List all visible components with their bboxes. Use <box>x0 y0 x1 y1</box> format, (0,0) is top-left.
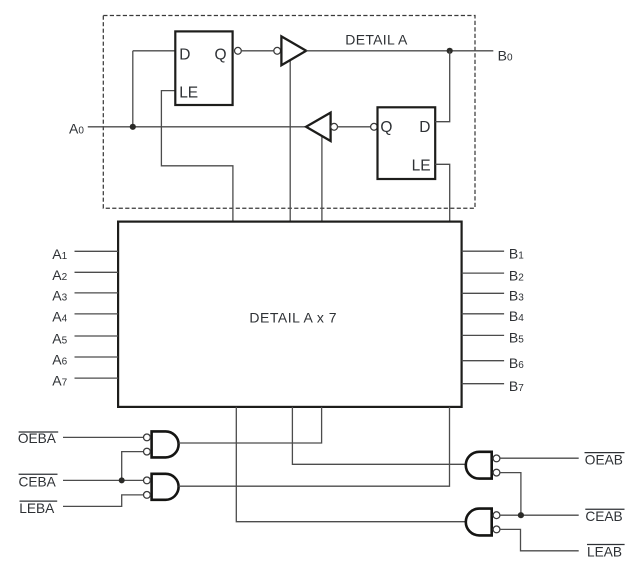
bubble U1 Q output <box>235 47 242 54</box>
bubble U4 Q output <box>371 123 378 130</box>
wire B2 <box>462 272 505 274</box>
wire U3 to U4 Q <box>338 126 371 128</box>
gate G1 (OEBA.CEBA) <box>152 431 179 457</box>
svg-text:Q: Q <box>215 46 227 63</box>
wire A4 <box>75 313 119 315</box>
wire G1 output to box <box>179 407 322 443</box>
svg-text:A2: A2 <box>52 267 67 283</box>
bubble buffer U2 input <box>274 47 281 54</box>
wire B6 <box>462 360 505 362</box>
svg-text:CEAB: CEAB <box>585 509 622 524</box>
svg-text:B7: B7 <box>509 378 524 394</box>
wire B4 <box>462 313 505 315</box>
bubble G2 input 2 <box>144 492 151 499</box>
wire A7 <box>75 377 119 379</box>
wire B3 <box>462 292 505 294</box>
pin OEBA <box>18 431 58 446</box>
wire U2 enable vertical <box>289 60 291 222</box>
wire A0 node to D input vertical <box>132 51 134 127</box>
wire CEBA branch to G1 <box>122 452 144 481</box>
pin CEAB <box>585 509 624 524</box>
svg-text:Q: Q <box>380 119 392 136</box>
node junction on CEBA <box>119 477 125 483</box>
latch U1 <box>175 31 232 105</box>
svg-text:A4: A4 <box>52 308 67 324</box>
svg-text:A0: A0 <box>69 121 84 137</box>
svg-text:A3: A3 <box>52 287 67 303</box>
wire A2 <box>75 271 119 273</box>
svg-text:B0: B0 <box>498 47 513 63</box>
wire B1 <box>462 250 505 252</box>
svg-text:LEBA: LEBA <box>19 501 55 516</box>
wire OEAB input <box>500 457 579 459</box>
wire A6 <box>75 356 119 358</box>
bubble G2 input 1 <box>144 477 151 484</box>
svg-text:OEBA: OEBA <box>18 431 57 446</box>
pin OEAB <box>585 453 625 468</box>
svg-text:A6: A6 <box>52 352 67 368</box>
svg-text:DETAIL A: DETAIL A <box>345 32 408 48</box>
svg-text:A5: A5 <box>52 331 67 347</box>
wire CEBA input <box>63 479 144 481</box>
bubble G4 input 2 <box>493 526 500 533</box>
wire A3 <box>75 292 119 294</box>
wire G2 output to box <box>179 407 450 486</box>
wire U1 LE left segment <box>161 91 233 222</box>
detail A dashed enclosure <box>103 16 475 209</box>
svg-text:B2: B2 <box>509 267 524 283</box>
gate G3 (OEAB.CEAB) <box>466 452 492 479</box>
wire CEAB input <box>500 514 579 516</box>
buffer U2 <box>281 36 306 65</box>
svg-text:D: D <box>179 46 190 63</box>
svg-text:LE: LE <box>412 157 431 174</box>
wire B0 line <box>306 50 493 52</box>
svg-text:B4: B4 <box>509 308 524 324</box>
wire U4 D to B0 node <box>435 51 450 122</box>
wire G4 output to box <box>236 407 465 522</box>
svg-text:LE: LE <box>179 85 198 102</box>
wire D input <box>133 50 176 52</box>
node junction on CEAB <box>518 512 524 518</box>
box DETAIL A x 7 <box>118 222 462 407</box>
wire G3 output to box <box>292 407 465 464</box>
svg-text:B5: B5 <box>509 330 524 346</box>
wire U1 Q to buffer <box>241 50 273 52</box>
wire LEBA input <box>63 495 144 507</box>
bubble U3 input <box>331 123 338 130</box>
node junction on A0 <box>130 124 136 130</box>
svg-text:OEAB: OEAB <box>585 453 623 468</box>
svg-text:A7: A7 <box>52 373 67 389</box>
svg-text:LEAB: LEAB <box>587 544 622 559</box>
bubble G3 input 2 <box>493 469 500 476</box>
pin LEBA <box>19 501 57 516</box>
bubble G1 input 2 <box>144 448 151 455</box>
inverter buffer U3 (left pointing) <box>306 113 331 141</box>
svg-text:D: D <box>419 119 430 136</box>
wire U4 LE control <box>435 164 450 221</box>
wire LEAB input <box>500 529 579 550</box>
svg-text:CEBA: CEBA <box>19 474 57 489</box>
wire A1 <box>75 250 119 252</box>
gate G4 (CEAB.LEAB) <box>466 509 492 536</box>
wire G3 input 2 branch <box>500 473 521 516</box>
gate G2 (CEBA.LEBA) <box>152 474 179 500</box>
wire B7 <box>462 383 505 385</box>
bubble G1 input 1 <box>144 434 151 441</box>
wire A0 horizontal <box>88 126 306 128</box>
svg-text:DETAIL A x 7: DETAIL A x 7 <box>249 309 337 325</box>
bubble G4 input 1 <box>493 512 500 519</box>
svg-text:B3: B3 <box>509 288 524 304</box>
bubble G3 input 1 <box>493 455 500 462</box>
wire A5 <box>75 335 119 337</box>
svg-text:A1: A1 <box>52 246 67 262</box>
pin CEBA <box>19 474 58 489</box>
svg-text:B6: B6 <box>509 355 524 371</box>
wire B5 <box>462 334 505 336</box>
wire OEBA input <box>63 436 144 438</box>
svg-text:B1: B1 <box>509 246 524 262</box>
wire U3 enable vertical <box>321 136 323 222</box>
latch U4 <box>378 107 436 179</box>
node junction on B0 <box>447 48 453 54</box>
pin LEAB <box>587 544 625 559</box>
